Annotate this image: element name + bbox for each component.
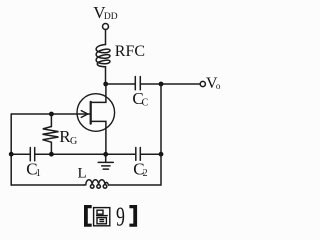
wire VDD to RFC (105, 30, 107, 45)
junction left rail (9, 152, 14, 157)
caption bracket left (84, 205, 92, 227)
transistor Q1 gate lead wire (11, 113, 90, 115)
label C2 (133, 159, 147, 179)
ground (98, 154, 113, 169)
svg-text:C: C (142, 98, 149, 109)
transistor Q1 gate arrow (81, 111, 87, 118)
svg-text:RFC: RFC (115, 43, 145, 60)
wire mid rail right (141, 153, 161, 155)
caption bracket right (129, 205, 137, 227)
wire RG bottom (50, 142, 52, 154)
label Vo (206, 75, 221, 92)
wire bottom rail left (11, 184, 84, 186)
capacitor CC (135, 77, 140, 90)
junction gate-RG (49, 112, 54, 117)
wire drain node to CC (106, 83, 135, 85)
wire RFC to drain node (105, 67, 107, 84)
caption figure 9 (84, 202, 137, 232)
svg-text:G: G (70, 136, 77, 147)
wire mid rail center (35, 153, 135, 155)
svg-text:DD: DD (104, 12, 118, 22)
capacitor C2 (136, 148, 141, 161)
svg-text:o: o (216, 81, 221, 91)
label C1 (26, 160, 41, 179)
junction RG bottom (49, 152, 54, 157)
transistor Q1 channel bar (90, 102, 92, 124)
resistor RG (43, 127, 59, 143)
wire RG top (50, 114, 52, 127)
label CC (132, 89, 148, 109)
svg-text:L: L (78, 165, 87, 181)
label RG (59, 127, 77, 147)
transistor Q1 drain lead (91, 84, 106, 102)
inductor RFC (96, 45, 110, 67)
wire bottom rail right (109, 154, 162, 185)
label L (78, 165, 87, 181)
wire CC to Vo (141, 83, 201, 85)
inductor L (84, 180, 109, 185)
svg-text:1: 1 (36, 168, 41, 179)
wire output node down to C2 rail (160, 84, 162, 154)
terminal VDD (103, 24, 109, 30)
capacitor C1 (30, 148, 34, 161)
junction output node (159, 82, 164, 87)
junction source node (103, 152, 108, 157)
wire mid rail left (11, 153, 30, 155)
caption glyph tu (figure) (94, 208, 110, 226)
terminal Vo (200, 81, 205, 86)
junction drain node (103, 82, 108, 87)
svg-text:9: 9 (116, 202, 125, 232)
node VDD label (93, 3, 118, 22)
label RFC (115, 43, 145, 60)
transistor Q1 source lead (91, 121, 106, 154)
wire left vertical (10, 114, 12, 185)
transistor Q1 body (77, 94, 115, 132)
junction right rail (159, 152, 164, 157)
svg-text:2: 2 (143, 168, 148, 179)
